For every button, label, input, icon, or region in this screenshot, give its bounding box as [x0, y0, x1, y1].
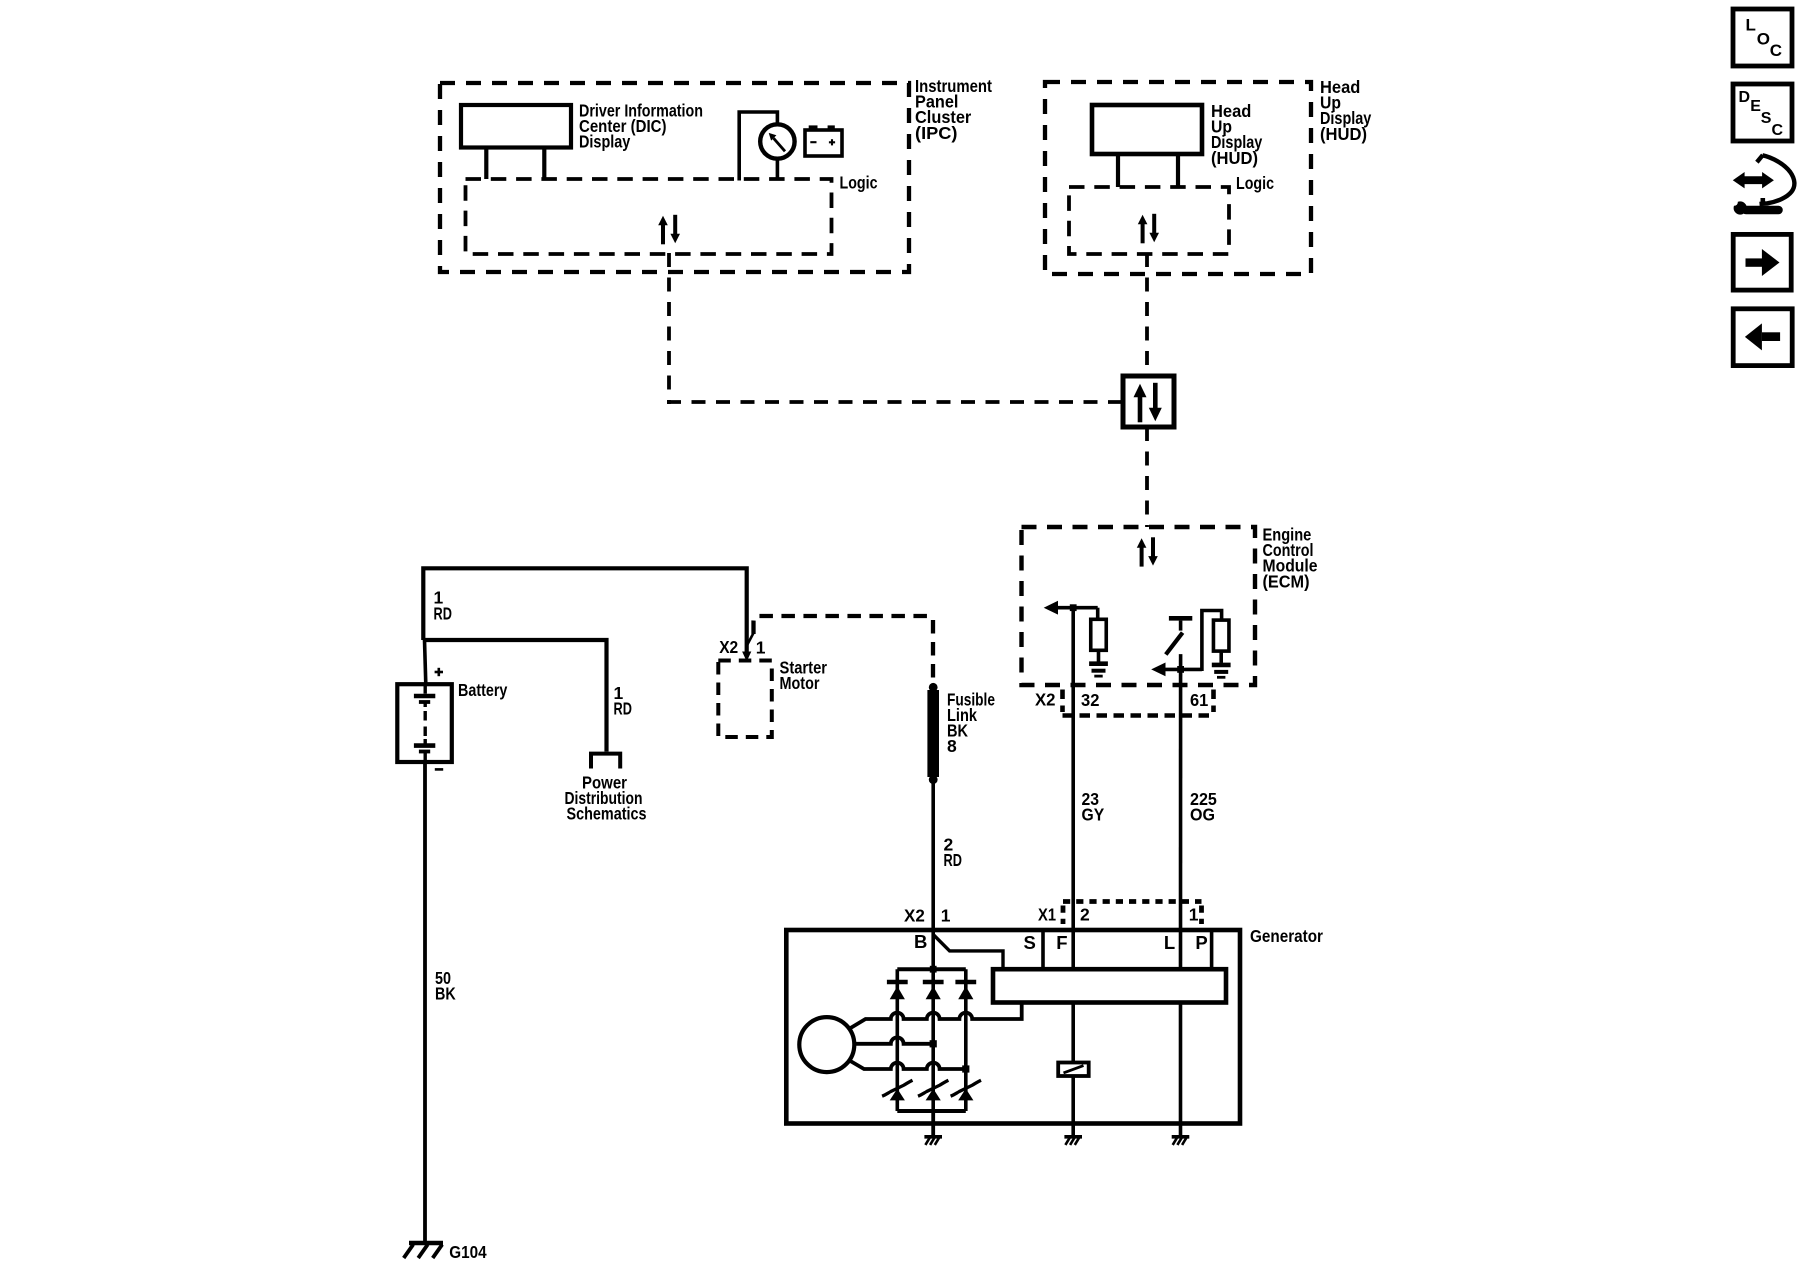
svg-text:RD: RD — [944, 850, 962, 870]
bridge bottom bus — [897, 1109, 966, 1113]
svg-text:O: O — [1757, 29, 1770, 48]
wire: gauge bracket — [739, 112, 777, 181]
svg-text:F: F — [1056, 932, 1067, 953]
serial data wire: splice box to ECM — [1145, 427, 1149, 527]
ground G104 — [409, 1241, 443, 1245]
svg-text:OG: OG — [1190, 805, 1215, 825]
ground (generator B) — [924, 1135, 942, 1139]
gauge (voltmeter) in IPC — [760, 124, 794, 158]
svg-text:61: 61 — [1190, 690, 1209, 710]
bridge column right — [964, 969, 968, 1111]
wire 23 GY: ECM pin 32 to generator F — [1071, 608, 1075, 970]
svg-text:L: L — [1164, 932, 1175, 953]
diode bottom right — [958, 1089, 973, 1101]
pin arrowhead at starter X2-1 — [742, 652, 751, 662]
instrument panel cluster (IPC) dashed box — [440, 83, 909, 272]
svg-text:X2: X2 — [719, 637, 738, 657]
ground (ECM right) — [1212, 663, 1231, 668]
svg-text:X2: X2 — [904, 906, 925, 926]
serial data arrows (ECM) — [1140, 546, 1144, 566]
DESC icon — [1733, 84, 1792, 141]
fusible link BK 8 — [927, 690, 939, 777]
node: phase 2 / B column junction — [930, 1040, 937, 1047]
diode bottom left — [890, 1089, 905, 1101]
svg-text:Schematics: Schematics — [567, 804, 647, 824]
svg-text:RD: RD — [434, 603, 452, 623]
node: fusible link top — [929, 683, 938, 692]
resistor (ECM pin 61 pull-down) — [1213, 620, 1229, 651]
prev-page icon — [1733, 309, 1792, 366]
svg-text:S: S — [1024, 932, 1036, 953]
node: B wire / top bus junction — [930, 966, 937, 973]
svg-text:Generator: Generator — [1250, 926, 1323, 946]
svg-text:G104: G104 — [449, 1242, 487, 1262]
svg-text:8: 8 — [947, 736, 957, 756]
switch blade — [1166, 633, 1183, 655]
LOC icon — [1733, 9, 1792, 66]
svg-text:S: S — [1761, 110, 1772, 127]
HUD logic dashed box — [1069, 187, 1229, 254]
node: pin32 junction — [1070, 604, 1077, 611]
ECM right group: driver switch — [1169, 616, 1192, 621]
diode top mid — [923, 980, 944, 985]
svg-text:C: C — [1770, 41, 1782, 60]
diode bottom mid — [926, 1089, 941, 1101]
svg-text:X2: X2 — [1035, 690, 1056, 710]
ECM left group: signal arrow — [1044, 601, 1058, 615]
generator connector X1 dashed bracket — [1063, 899, 1202, 904]
head up display (HUD) dashed box — [1045, 82, 1311, 274]
node: pin61 junction — [1177, 666, 1184, 673]
svg-text:B: B — [914, 931, 927, 952]
stator winding phase 1 — [849, 1003, 1021, 1029]
resistor (ECM pin 32 pull-down) — [1091, 619, 1107, 650]
svg-text:1: 1 — [941, 906, 951, 926]
IPC logic dashed box — [466, 179, 832, 254]
svg-text:2: 2 — [1080, 905, 1090, 925]
serial data wire: IPC logic down — [667, 253, 671, 404]
stator winding phase 3 — [849, 1060, 966, 1069]
wire: L through regulator — [1179, 1003, 1183, 1136]
wire: power distribution feed — [423, 640, 606, 752]
svg-text:RD: RD — [614, 699, 632, 719]
off-page connector bracket — [591, 754, 620, 769]
engine control module (ECM) dashed box — [1022, 527, 1256, 685]
ground (ECM left) — [1089, 661, 1108, 666]
wire: resistor drop — [1096, 608, 1100, 620]
ground (generator L) — [1172, 1135, 1190, 1139]
svg-text:(HUD): (HUD) — [1320, 124, 1367, 144]
wire: HUD display right leg — [1176, 154, 1180, 187]
svg-text:Battery: Battery — [458, 680, 508, 700]
svg-text:C: C — [1772, 122, 1784, 139]
svg-text:(ECM): (ECM) — [1263, 571, 1310, 591]
svg-text:BK: BK — [435, 984, 456, 1004]
wire: B column to ground — [931, 1111, 935, 1135]
battery telltale icon in IPC — [805, 130, 842, 156]
wire: gauge to logic box — [776, 159, 780, 181]
serial data arrows (IPC logic) — [661, 224, 665, 245]
schematic-jump icon (arrows + wrench) — [1744, 176, 1763, 184]
generator pin slot tabs — [1041, 930, 1045, 969]
rotor circle — [799, 1017, 854, 1072]
wire: HUD display left leg — [1116, 154, 1120, 187]
wire: B sense line to regulator — [933, 935, 1003, 970]
serial data arrows (HUD logic) — [1141, 223, 1145, 244]
battery internal cells — [424, 684, 427, 694]
generator box — [786, 930, 1240, 1124]
HUD display box — [1092, 105, 1202, 154]
field indicator (box with diagonal) — [1058, 1063, 1089, 1077]
wire 225 OG: ECM pin 61 to generator L — [1179, 654, 1183, 969]
bridge column left — [895, 969, 899, 1111]
ground (generator F) — [1064, 1135, 1082, 1139]
wire: F through regulator — [1071, 1003, 1075, 1063]
pin slash at starter X2-1 — [746, 633, 753, 647]
svg-text:E: E — [1750, 98, 1761, 115]
svg-text:32: 32 — [1081, 690, 1100, 710]
wire: bracket to resistor — [1202, 611, 1222, 672]
node: phase 3 / right column junction — [962, 1065, 969, 1072]
svg-text:D: D — [1739, 89, 1751, 106]
starter motor dashed box — [718, 661, 772, 738]
wire: DIC display left leg — [484, 148, 488, 180]
svg-text:L: L — [1746, 16, 1756, 35]
diode top right — [955, 980, 976, 985]
svg-text:Display: Display — [579, 132, 631, 152]
DIC display box — [461, 105, 571, 148]
ECM connector dotted bracket — [1060, 690, 1065, 713]
svg-text:X1: X1 — [1038, 905, 1056, 925]
svg-text:Motor: Motor — [780, 673, 820, 693]
next-page icon — [1733, 234, 1791, 290]
svg-text:GY: GY — [1082, 805, 1105, 825]
svg-text:P: P — [1195, 932, 1207, 953]
serial data splice box — [1123, 376, 1174, 427]
serial data wire: HUD logic down to splice box — [1145, 253, 1149, 376]
svg-text:(HUD): (HUD) — [1211, 148, 1258, 168]
svg-text:1: 1 — [756, 637, 766, 657]
wire: battery positive to starter (top run) — [423, 568, 746, 652]
svg-text:1: 1 — [1189, 905, 1199, 925]
wire: starter to fusible link (dashed) — [754, 616, 934, 634]
svg-text:Logic: Logic — [840, 173, 878, 193]
rectifier bridge top bus — [897, 967, 966, 971]
wire: DIC display right leg — [542, 148, 546, 180]
wire 2 RD: fusible link to generator B — [931, 780, 935, 969]
bridge column middle (B) — [931, 969, 935, 1111]
node: fusible link bottom — [929, 775, 938, 784]
svg-text:(IPC): (IPC) — [915, 123, 958, 143]
battery - label — [435, 768, 443, 771]
signal arrow (pin 61) — [1151, 663, 1165, 677]
diode top left — [887, 980, 908, 985]
battery — [425, 640, 426, 684]
wire 50 BK: battery negative to G104 — [423, 762, 427, 1243]
svg-text:Logic: Logic — [1236, 173, 1274, 193]
serial data wire: horizontal run to splice box — [667, 400, 1123, 404]
stator winding phase 2 — [854, 1037, 933, 1043]
voltage regulator box — [993, 969, 1226, 1002]
battery + label — [435, 671, 443, 674]
